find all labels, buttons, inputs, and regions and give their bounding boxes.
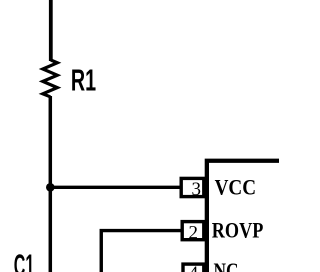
svg-text:2: 2 <box>189 222 199 243</box>
wire: vertical from R1 down past junction to bottom edge <box>49 96 53 272</box>
op-amp U1 body edge <box>207 161 279 272</box>
pin 2 box <box>182 222 204 240</box>
pin 3 box <box>181 178 204 196</box>
svg-text:C1: C1 <box>14 247 35 272</box>
pin 4 box <box>183 264 204 272</box>
svg-text:VCC: VCC <box>215 174 257 199</box>
svg-text:ROVP: ROVP <box>212 217 263 242</box>
wire: horizontal to pin 2 with corner down to bottom edge <box>101 231 181 272</box>
wire: horizontal from junction to pin 3 <box>50 186 181 189</box>
wire: top vertical lead into R1 <box>49 0 53 61</box>
svg-text:4: 4 <box>189 263 199 272</box>
svg-text:NC: NC <box>214 258 239 272</box>
node junction dot <box>46 183 55 192</box>
svg-text:3: 3 <box>191 179 201 200</box>
svg-text:R1: R1 <box>71 63 96 98</box>
resistor R1 <box>43 60 58 97</box>
